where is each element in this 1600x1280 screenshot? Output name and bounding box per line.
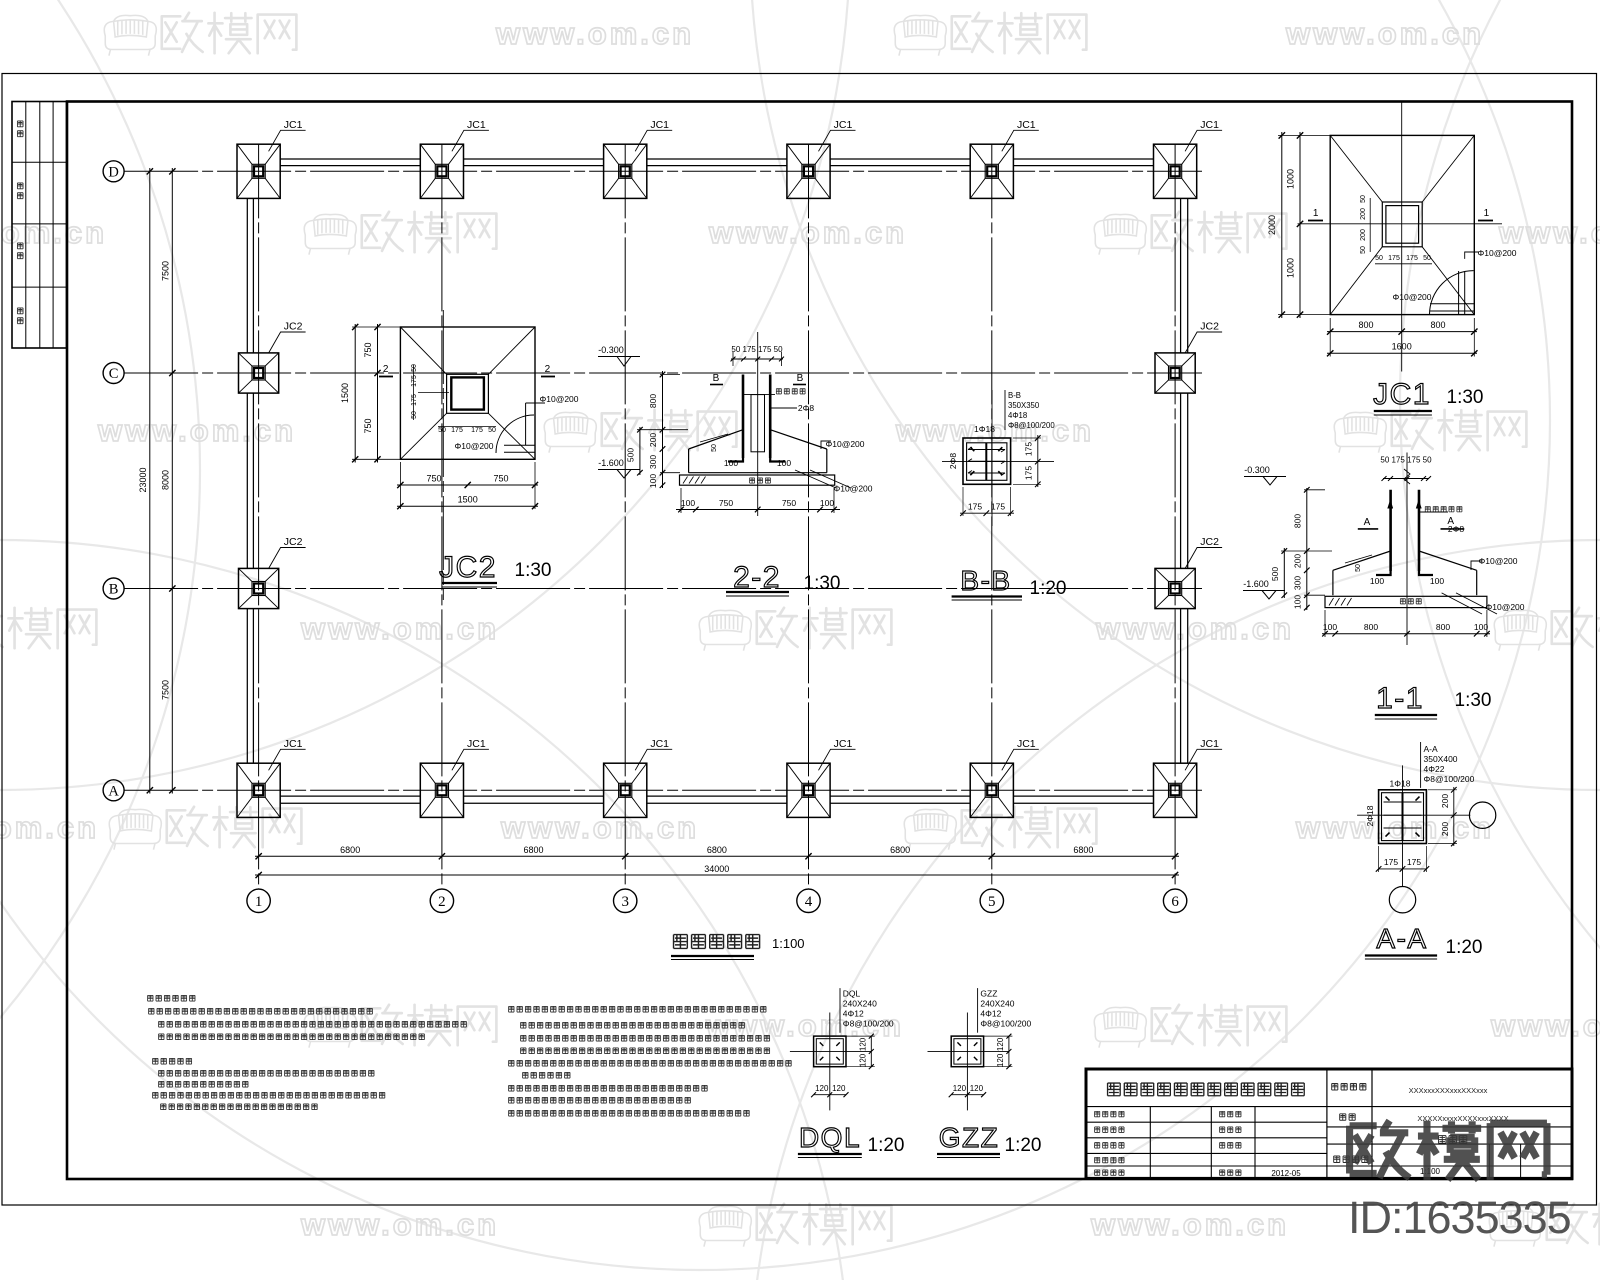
svg-text:2Φ18: 2Φ18 bbox=[1365, 805, 1375, 826]
svg-text:A-A: A-A bbox=[1424, 744, 1439, 754]
svg-text:C: C bbox=[109, 366, 119, 382]
svg-text:100: 100 bbox=[681, 498, 695, 508]
svg-text:50: 50 bbox=[411, 364, 418, 372]
footing pads JC1/JC2 bbox=[237, 144, 280, 198]
svg-text:GZZ: GZZ bbox=[939, 1122, 1000, 1153]
svg-text:DQL: DQL bbox=[843, 988, 861, 998]
svg-text:175: 175 bbox=[968, 502, 982, 512]
svg-text:50: 50 bbox=[438, 427, 446, 434]
svg-text:2000: 2000 bbox=[1267, 215, 1277, 235]
svg-text:-0.300: -0.300 bbox=[598, 345, 624, 355]
left dimension chain 7500/8000/7500/23000 bbox=[149, 168, 151, 794]
svg-text:1:30: 1:30 bbox=[804, 573, 841, 594]
grid axis lines D C B A / 1-6 bbox=[124, 170, 1202, 172]
svg-text:2012-05: 2012-05 bbox=[1271, 1169, 1301, 1178]
svg-text:300: 300 bbox=[1293, 576, 1303, 590]
svg-text:120: 120 bbox=[858, 1053, 867, 1067]
svg-text:B: B bbox=[109, 582, 119, 598]
svg-text:JC2: JC2 bbox=[1200, 321, 1219, 333]
svg-text:www.om.cn: www.om.cn bbox=[0, 810, 99, 845]
svg-text:1:20: 1:20 bbox=[1446, 937, 1483, 958]
svg-text:A: A bbox=[1364, 517, 1371, 528]
svg-text:23000: 23000 bbox=[138, 467, 148, 492]
svg-text:500: 500 bbox=[626, 448, 636, 462]
svg-text:www.om.cn: www.om.cn bbox=[1095, 611, 1294, 646]
svg-text:100: 100 bbox=[1370, 576, 1384, 586]
svg-text:A-A: A-A bbox=[1376, 923, 1427, 954]
svg-text:Φ10@200: Φ10@200 bbox=[833, 484, 872, 494]
svg-text:2: 2 bbox=[383, 364, 389, 375]
svg-text:Φ10@200: Φ10@200 bbox=[825, 439, 864, 449]
svg-text:2Φ8: 2Φ8 bbox=[798, 403, 815, 413]
detail section A-A 1:20 bbox=[1379, 790, 1427, 844]
svg-text:1:20: 1:20 bbox=[1030, 578, 1067, 599]
svg-text:1:20: 1:20 bbox=[868, 1135, 905, 1156]
svg-text:1:30: 1:30 bbox=[1447, 387, 1484, 408]
svg-text:100: 100 bbox=[1474, 622, 1488, 632]
svg-text:50: 50 bbox=[1360, 195, 1367, 203]
svg-text:1000: 1000 bbox=[1286, 169, 1296, 189]
svg-text:6800: 6800 bbox=[890, 845, 910, 855]
svg-text:-1.600: -1.600 bbox=[1243, 579, 1269, 589]
svg-text:50 175 175 50: 50 175 175 50 bbox=[1380, 456, 1432, 465]
svg-text:6: 6 bbox=[1171, 894, 1179, 910]
svg-text:JC1: JC1 bbox=[1200, 119, 1219, 131]
left revision table bbox=[12, 102, 67, 349]
svg-text:4Φ18: 4Φ18 bbox=[1008, 411, 1027, 420]
svg-text:4: 4 bbox=[805, 894, 813, 910]
svg-text:100: 100 bbox=[820, 498, 834, 508]
svg-text:JC1: JC1 bbox=[1017, 119, 1036, 131]
detail section B-B 1:20 bbox=[963, 438, 1011, 484]
svg-text:2-2: 2-2 bbox=[733, 561, 781, 594]
svg-text:1: 1 bbox=[1313, 208, 1319, 219]
svg-text:500: 500 bbox=[1270, 567, 1280, 581]
svg-text:Φ10@200: Φ10@200 bbox=[1477, 248, 1516, 258]
svg-text:JC1: JC1 bbox=[1017, 738, 1036, 750]
svg-text:120: 120 bbox=[858, 1037, 867, 1051]
svg-text:175: 175 bbox=[1024, 466, 1034, 480]
svg-text:750: 750 bbox=[363, 342, 373, 357]
svg-text:JC2: JC2 bbox=[284, 536, 303, 548]
svg-text:100: 100 bbox=[1293, 595, 1303, 609]
svg-text:2Φ8: 2Φ8 bbox=[1448, 524, 1465, 534]
svg-text:Φ10@200: Φ10@200 bbox=[1485, 602, 1524, 612]
svg-text:200: 200 bbox=[1360, 208, 1367, 220]
svg-text:100: 100 bbox=[1430, 576, 1444, 586]
svg-text:JC1: JC1 bbox=[834, 738, 853, 750]
svg-text:350X350: 350X350 bbox=[1008, 401, 1040, 410]
svg-text:www.om.cn: www.om.cn bbox=[1285, 16, 1484, 51]
svg-text:175: 175 bbox=[471, 427, 483, 434]
svg-text:4Φ12: 4Φ12 bbox=[980, 1008, 1001, 1018]
svg-text:6800: 6800 bbox=[523, 845, 543, 855]
svg-text:JC1: JC1 bbox=[467, 738, 486, 750]
svg-text:JC2: JC2 bbox=[439, 551, 497, 584]
svg-text:JC2: JC2 bbox=[1200, 536, 1219, 548]
svg-text:800: 800 bbox=[1436, 622, 1450, 632]
svg-text:Φ8@100/200: Φ8@100/200 bbox=[1424, 774, 1475, 784]
svg-text:7500: 7500 bbox=[160, 261, 170, 281]
svg-text:1Φ18: 1Φ18 bbox=[1390, 779, 1411, 789]
detail JC1 1:30 bbox=[1330, 135, 1474, 314]
svg-text:800: 800 bbox=[1293, 514, 1303, 528]
svg-text:JC1: JC1 bbox=[834, 119, 853, 131]
svg-text:3: 3 bbox=[621, 894, 629, 910]
plan title 1:100 bbox=[674, 935, 760, 949]
svg-text:800: 800 bbox=[648, 394, 658, 408]
dark watermark logo + ID bbox=[1350, 1121, 1547, 1180]
svg-text:JC1: JC1 bbox=[284, 738, 303, 750]
svg-text:200: 200 bbox=[1293, 554, 1303, 568]
details DQL & GZZ 1:20 bbox=[814, 1036, 846, 1067]
svg-text:www.om.cn: www.om.cn bbox=[300, 611, 499, 646]
svg-text:100: 100 bbox=[648, 474, 658, 488]
svg-text:www.om.cn: www.om.cn bbox=[1490, 1008, 1600, 1043]
svg-text:50: 50 bbox=[1355, 564, 1362, 572]
svg-text:50: 50 bbox=[1375, 255, 1383, 262]
svg-text:120: 120 bbox=[996, 1053, 1005, 1067]
svg-text:175: 175 bbox=[1406, 255, 1418, 262]
svg-text:200: 200 bbox=[1440, 822, 1450, 836]
svg-text:4Φ12: 4Φ12 bbox=[843, 1008, 864, 1018]
foundation beams DQL bbox=[280, 158, 420, 160]
svg-text:Φ8@100/200: Φ8@100/200 bbox=[843, 1018, 894, 1028]
svg-text:175: 175 bbox=[991, 502, 1005, 512]
svg-text:www.om.cn: www.om.cn bbox=[97, 413, 296, 448]
svg-text:1000: 1000 bbox=[1286, 258, 1296, 278]
svg-text:800: 800 bbox=[1364, 622, 1378, 632]
svg-text:34000: 34000 bbox=[704, 864, 729, 874]
svg-text:50: 50 bbox=[411, 411, 418, 419]
svg-text:www.om.cn: www.om.cn bbox=[300, 1207, 499, 1242]
svg-text:6800: 6800 bbox=[340, 845, 360, 855]
svg-text:A: A bbox=[108, 784, 119, 800]
svg-text:D: D bbox=[108, 165, 118, 181]
svg-text:200: 200 bbox=[1360, 229, 1367, 241]
svg-text:2Φ8: 2Φ8 bbox=[948, 453, 958, 470]
svg-text:-1.600: -1.600 bbox=[598, 458, 624, 468]
svg-text:750: 750 bbox=[782, 498, 796, 508]
svg-text:120: 120 bbox=[815, 1084, 829, 1093]
svg-text:800: 800 bbox=[1358, 320, 1373, 330]
svg-text:XXXxxxXXXxxxXXXxxx: XXXxxxXXXxxxXXXxxx bbox=[1409, 1086, 1488, 1095]
svg-text:www.om.cn: www.om.cn bbox=[708, 215, 907, 250]
svg-text:Φ10@200: Φ10@200 bbox=[1478, 556, 1517, 566]
bottom dimension chain 6800x5 / 34000 bbox=[255, 855, 1179, 857]
axis bubbles bbox=[103, 161, 124, 182]
svg-text:120: 120 bbox=[953, 1084, 967, 1093]
svg-text:1: 1 bbox=[1484, 208, 1490, 219]
svg-text:www.om.cn: www.om.cn bbox=[1498, 215, 1600, 250]
svg-text:JC2: JC2 bbox=[284, 321, 303, 333]
svg-text:100: 100 bbox=[777, 458, 791, 468]
svg-text:JC1: JC1 bbox=[467, 119, 486, 131]
svg-text:B: B bbox=[797, 373, 804, 384]
svg-text:750: 750 bbox=[363, 418, 373, 433]
svg-text:JC1: JC1 bbox=[650, 738, 669, 750]
svg-text:175: 175 bbox=[1384, 857, 1398, 867]
svg-text:2: 2 bbox=[545, 364, 551, 375]
svg-text:Φ10@200: Φ10@200 bbox=[454, 441, 493, 451]
svg-text:750: 750 bbox=[426, 474, 441, 484]
svg-text:Φ8@100/200: Φ8@100/200 bbox=[980, 1018, 1031, 1028]
svg-text:750: 750 bbox=[719, 498, 733, 508]
svg-text:Φ10@200: Φ10@200 bbox=[539, 394, 578, 404]
general notes text bbox=[148, 995, 195, 1001]
svg-text:175: 175 bbox=[1407, 857, 1421, 867]
svg-text:1:20: 1:20 bbox=[1005, 1135, 1042, 1156]
svg-text:120: 120 bbox=[832, 1084, 846, 1093]
svg-text:300: 300 bbox=[648, 455, 658, 469]
svg-text:1:100: 1:100 bbox=[772, 936, 805, 951]
svg-text:50: 50 bbox=[1423, 255, 1431, 262]
svg-text:JC1: JC1 bbox=[650, 119, 669, 131]
svg-text:175: 175 bbox=[411, 394, 418, 406]
svg-text:350X400: 350X400 bbox=[1424, 754, 1458, 764]
svg-text:GZZ: GZZ bbox=[980, 988, 997, 998]
svg-text:Φ10@200: Φ10@200 bbox=[1392, 292, 1431, 302]
svg-text:800: 800 bbox=[1430, 320, 1445, 330]
svg-text:175: 175 bbox=[451, 427, 463, 434]
svg-text:ID:1635335: ID:1635335 bbox=[1348, 1192, 1571, 1243]
svg-text:B-B: B-B bbox=[960, 565, 1011, 596]
svg-text:120: 120 bbox=[970, 1084, 984, 1093]
svg-text:www.om.cn: www.om.cn bbox=[500, 810, 699, 845]
svg-text:JC1: JC1 bbox=[1373, 378, 1431, 411]
svg-text:1-1: 1-1 bbox=[1376, 682, 1424, 715]
svg-text:1500: 1500 bbox=[340, 383, 350, 403]
svg-text:50: 50 bbox=[488, 427, 496, 434]
svg-text:200: 200 bbox=[648, 433, 658, 447]
svg-text:1:30: 1:30 bbox=[1455, 690, 1492, 711]
svg-text:5: 5 bbox=[988, 894, 996, 910]
svg-text:200: 200 bbox=[1440, 794, 1450, 808]
svg-text:50: 50 bbox=[1360, 246, 1367, 254]
svg-text:240X240: 240X240 bbox=[980, 998, 1014, 1008]
svg-text:2: 2 bbox=[438, 894, 446, 910]
svg-text:DQL: DQL bbox=[799, 1122, 861, 1153]
svg-text:1:30: 1:30 bbox=[515, 560, 552, 581]
svg-text:1500: 1500 bbox=[458, 495, 478, 505]
svg-text:B-B: B-B bbox=[1008, 391, 1021, 400]
svg-text:8000: 8000 bbox=[160, 470, 170, 490]
svg-text:175: 175 bbox=[1024, 442, 1034, 456]
title block bbox=[1086, 1069, 1572, 1178]
svg-text:B: B bbox=[713, 373, 720, 384]
svg-text:175: 175 bbox=[411, 375, 418, 387]
svg-text:4Φ22: 4Φ22 bbox=[1424, 764, 1445, 774]
svg-text:6800: 6800 bbox=[1073, 845, 1093, 855]
svg-text:7500: 7500 bbox=[160, 680, 170, 700]
svg-text:175: 175 bbox=[1388, 255, 1400, 262]
svg-text:100: 100 bbox=[724, 458, 738, 468]
svg-text:www.om.cn: www.om.cn bbox=[495, 16, 694, 51]
svg-text:Φ8@100/200: Φ8@100/200 bbox=[1008, 421, 1055, 430]
svg-text:www.om.cn: www.om.cn bbox=[1090, 1207, 1289, 1242]
svg-text:1: 1 bbox=[255, 894, 263, 910]
svg-text:6800: 6800 bbox=[707, 845, 727, 855]
svg-text:120: 120 bbox=[996, 1037, 1005, 1051]
svg-text:-0.300: -0.300 bbox=[1244, 465, 1270, 475]
svg-text:1600: 1600 bbox=[1392, 342, 1412, 352]
svg-text:240X240: 240X240 bbox=[843, 998, 877, 1008]
detail JC2 1:30 bbox=[400, 327, 535, 459]
svg-text:50: 50 bbox=[711, 444, 718, 452]
svg-text:750: 750 bbox=[493, 474, 508, 484]
svg-text:1Φ18: 1Φ18 bbox=[974, 424, 995, 434]
svg-text:JC1: JC1 bbox=[284, 119, 303, 131]
svg-text:JC1: JC1 bbox=[1200, 738, 1219, 750]
